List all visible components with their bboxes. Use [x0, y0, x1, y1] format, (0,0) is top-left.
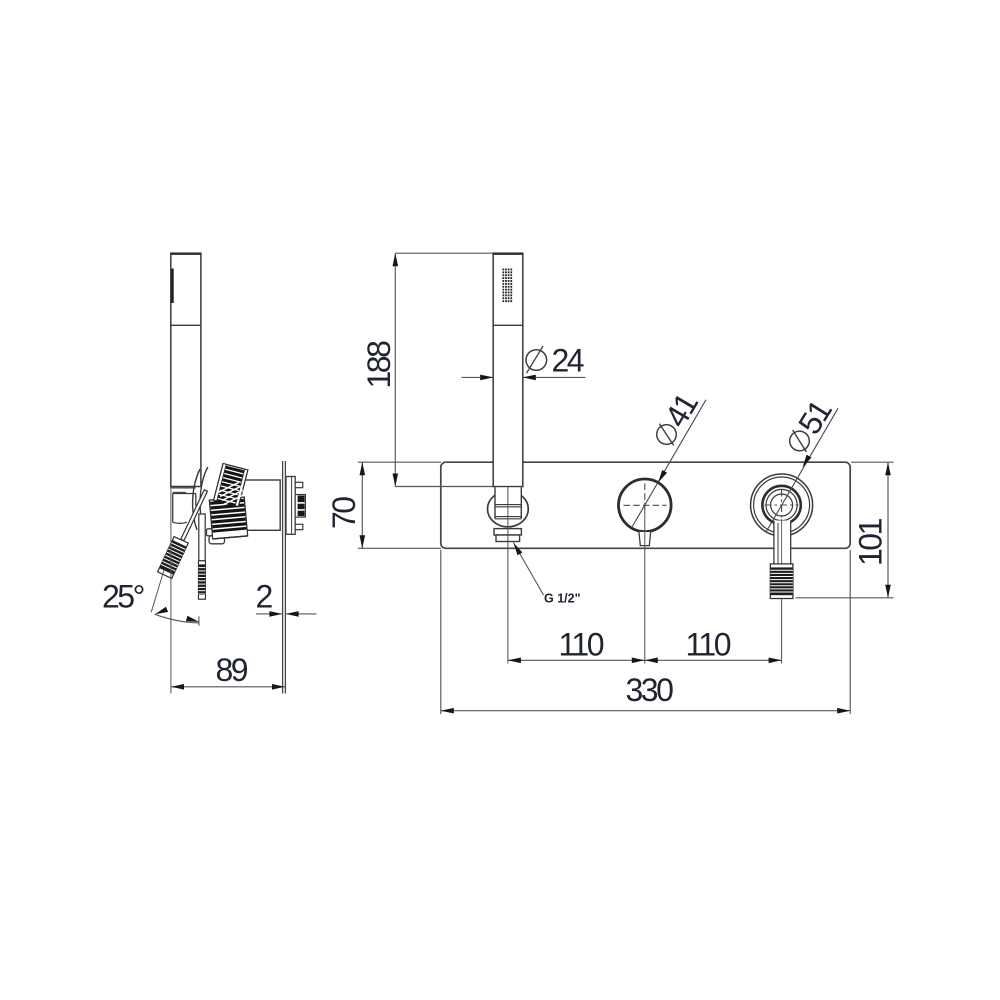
dimension 70: extension lines [358, 462, 441, 548]
hand shower wand (front view) [493, 253, 523, 486]
label 101 [853, 518, 889, 566]
dimension 2: arrows [269, 611, 298, 617]
dimension dia24: arrows [480, 375, 536, 381]
knob lever tip [639, 531, 651, 545]
label 2 [256, 579, 273, 615]
dimension 330: line [441, 710, 850, 712]
lever handle rod (side view) [181, 490, 208, 541]
dimension 89: line [171, 686, 285, 688]
dimension 70: arrows [360, 462, 366, 548]
svg-text:G 1/2": G 1/2" [544, 592, 581, 606]
lever axis extension line [151, 570, 164, 612]
svg-text:25°: 25° [102, 579, 144, 615]
svg-text:24: 24 [552, 343, 584, 379]
dimension 110 left: arrows [508, 658, 645, 664]
shower holder arm (side view) [172, 494, 196, 524]
in-wall valve housing (side view) [286, 477, 295, 535]
lever grip, knurled (side view) [158, 537, 189, 579]
angle arrow right [186, 616, 199, 622]
valve body cylinder (side view) [239, 480, 281, 530]
diverter centerline [781, 519, 783, 664]
label G 1/2 [544, 592, 581, 606]
svg-text:89: 89 [216, 652, 248, 688]
diverter escutcheon dia51 (front view) [751, 474, 813, 536]
hand shower wand (side view) [171, 253, 201, 492]
wall plate 330x70 (front view) [441, 462, 850, 548]
wand holder ring (front view) [488, 491, 529, 527]
diverter grip knurled (front view) [770, 564, 793, 599]
label 110 right [686, 627, 731, 663]
label 188 [361, 341, 397, 389]
cross-knurl highlight slashes (side view) [218, 482, 245, 505]
dimension 89: arrows [171, 684, 285, 690]
dimension 110 left: line [508, 659, 645, 661]
pull rod knurled tip (side view) [199, 561, 206, 599]
dimension 2: lines [256, 613, 317, 615]
dimension 330: arrows [441, 708, 850, 714]
holder neck (front view) [495, 487, 521, 519]
mixer knob dia41 (front view) [619, 479, 672, 532]
dia41 leader line [632, 400, 706, 528]
label 25 deg [102, 579, 144, 615]
dimension dia24: lines [462, 376, 586, 378]
spray face edge (side view) [171, 269, 173, 304]
dimension 70: line [361, 462, 363, 548]
angle arrow left [155, 607, 168, 615]
label dia 24 [526, 343, 584, 379]
diverter pull rod (side view) [199, 514, 205, 561]
svg-text:110: 110 [559, 627, 604, 663]
label 89 [216, 652, 248, 688]
wall plate edge, 2mm thick (side view) [283, 461, 286, 694]
label dia 41 [646, 387, 705, 452]
label 110 left [559, 627, 604, 663]
dimension 101: line [887, 462, 889, 598]
dimension 110 right: line [645, 659, 782, 661]
threaded outlet nipple (side view) [295, 495, 305, 518]
dimension 188: line [394, 253, 396, 486]
label 330 [626, 672, 674, 708]
dimension 101: arrows [885, 462, 891, 598]
holder ring arcs (side view) [193, 467, 208, 532]
knurled control knob, tilted (side view) [213, 464, 247, 508]
label dia 51 [779, 394, 838, 459]
lower supply pin (side view) [295, 524, 303, 529]
25 degree angle arc [155, 614, 200, 626]
svg-text:101: 101 [853, 518, 889, 566]
svg-text:70: 70 [326, 497, 362, 529]
knob centerline [644, 508, 646, 664]
svg-text:2: 2 [256, 579, 273, 615]
extension line from wand edge (side view) [170, 487, 172, 694]
knurled valve collar (side view) [209, 497, 247, 539]
dimension 188: extension lines [395, 253, 493, 486]
svg-text:188: 188 [361, 341, 397, 389]
diverter crosshair [765, 490, 799, 521]
wand centerline [507, 487, 509, 664]
svg-text:330: 330 [626, 672, 674, 708]
dimension 101: extension lines [796, 462, 894, 598]
dimension 188: arrows [393, 253, 399, 486]
holder bracket (front view) [494, 529, 521, 542]
diverter stem (front view) [774, 521, 791, 565]
label 70 [326, 497, 362, 529]
upper supply pin (side view) [295, 482, 303, 487]
dia51 leader line [766, 408, 838, 532]
knob crosshair [624, 484, 667, 512]
G 1/2 leader line [514, 543, 544, 595]
svg-text:110: 110 [686, 627, 731, 663]
spray face dots (front view) [502, 268, 513, 303]
valve bottom cap (side view) [207, 529, 238, 544]
dimension 110 right: arrows [645, 658, 782, 664]
dimension 330: extension lines [441, 550, 850, 714]
